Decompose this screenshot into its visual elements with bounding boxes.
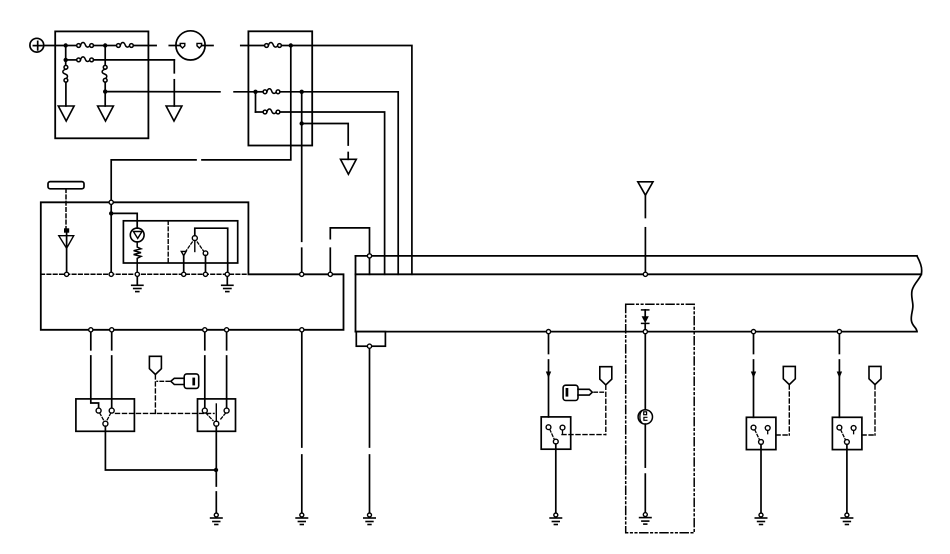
key cylinder shield 3	[783, 366, 795, 384]
switch arm	[194, 241, 196, 252]
switch arm dashes	[550, 430, 554, 440]
hood switch box	[541, 417, 571, 449]
switch 1 common	[103, 421, 108, 426]
wire B3 down	[301, 92, 303, 242]
relay switch common	[192, 236, 197, 241]
right unit bottom edge	[356, 331, 917, 333]
wire pin to door switch 1 terminal b	[111, 330, 113, 350]
battery positive terminal B+	[30, 38, 44, 52]
key icon (pointing right)	[563, 385, 592, 400]
glovebox switch feed wire	[838, 332, 840, 354]
wire after break to bus pin	[644, 228, 646, 274]
wire after break	[548, 360, 550, 417]
wire after break to ground	[369, 455, 371, 513]
fuse box 2 (dash fuse box)	[248, 31, 312, 145]
wire common up and over to pin	[195, 228, 228, 274]
wire common to ground	[846, 444, 848, 512]
wire	[282, 45, 291, 47]
wire battery to fuse box	[44, 45, 66, 47]
left unit dashed terminal line	[41, 273, 249, 275]
ground G6	[222, 285, 233, 291]
wire row3 to right bend	[280, 112, 385, 274]
key cylinder shield symbol	[149, 356, 161, 374]
wire A2 down	[104, 46, 106, 66]
wire B1 down and left to pin	[202, 46, 291, 160]
wire row1 to ignition switch	[133, 45, 156, 47]
diode D1	[642, 310, 649, 332]
ground G2 triangle	[98, 106, 114, 121]
relay contact terminal b	[203, 251, 208, 256]
wire pin to door switch 2 terminal a	[204, 330, 206, 350]
dashed link shield to switch	[154, 375, 156, 414]
wire row2 to right bend	[302, 92, 399, 274]
ground G12	[755, 513, 766, 525]
ground G5	[132, 285, 143, 291]
ground G4 triangle	[341, 159, 357, 174]
wire	[183, 256, 185, 275]
wire after break	[753, 360, 755, 417]
node B2 junction	[253, 90, 257, 94]
wire after break	[111, 356, 113, 411]
node B1 junction	[289, 43, 293, 47]
ground G3 triangle	[166, 106, 182, 121]
wire subbox pin down	[369, 346, 371, 447]
fuse F2	[117, 42, 134, 47]
antenna triangle symbol	[638, 182, 653, 195]
wire after connector break into fuse box 2	[241, 45, 265, 47]
wire after break with jog	[91, 356, 99, 411]
dashed shield to linkage	[788, 385, 790, 435]
wire after break	[226, 356, 228, 411]
wire after break to left unit pin	[111, 160, 196, 202]
dashed key to shield link	[594, 391, 605, 393]
switch terminal b	[851, 426, 856, 431]
fuse box 1 (under-hood fuse/relay box)	[55, 31, 148, 138]
switch arm dashes	[186, 242, 192, 251]
pin on right unit bus	[643, 272, 647, 276]
switch 2 terminal b	[224, 408, 229, 413]
connector arrow	[837, 372, 842, 379]
wire after break to ground	[215, 492, 217, 513]
security relay box	[123, 221, 237, 263]
connector arrow	[546, 372, 551, 379]
trunk switch feed wire	[753, 332, 755, 354]
wire node W330 up and over to right box pin	[329, 248, 331, 274]
wire row2	[66, 59, 77, 61]
switch 2 arm dashes	[206, 413, 213, 420]
wire	[94, 45, 106, 47]
linkage dashed	[862, 434, 875, 436]
buzzer	[638, 410, 652, 424]
glovebox switch box	[832, 417, 862, 449]
wire after connector break	[169, 45, 180, 47]
switch terminal a	[751, 425, 756, 430]
key linkage dashed line	[116, 412, 215, 414]
wire B2 down to row3	[255, 92, 257, 112]
switch terminal b	[765, 426, 770, 431]
right unit left edge	[355, 256, 357, 332]
key icon (pointing left)	[171, 374, 199, 389]
switch terminal b	[560, 425, 565, 430]
connector arrow	[751, 372, 756, 379]
switch 2 arm	[215, 404, 217, 421]
dashed key to shield link	[157, 380, 170, 382]
wire branch to relay lamp	[111, 213, 137, 228]
wire row3 long to fuse box 2	[105, 91, 220, 93]
wire from ignition switch right	[202, 45, 213, 47]
ground G11	[550, 513, 561, 525]
wire	[205, 256, 207, 275]
node A3 junction row2	[63, 58, 67, 62]
switch 1 arm dashes	[100, 413, 104, 421]
pins on right unit bottom edge	[546, 330, 550, 334]
linkage dashed	[776, 434, 789, 436]
switch terminal a	[546, 425, 551, 430]
node A1 junction	[63, 43, 67, 47]
wire after break	[330, 228, 369, 256]
hood switch feed wire	[548, 332, 550, 354]
relay contact terminal a	[181, 251, 186, 255]
ignition switch connector (circle)	[176, 31, 205, 60]
ground G1 triangle	[58, 106, 74, 121]
wire row1 segment	[66, 45, 77, 47]
node B4 junction	[300, 121, 304, 125]
fuse F1	[77, 42, 94, 47]
relay coil	[134, 242, 141, 274]
switch common	[553, 439, 558, 444]
wire after break to ground G4	[347, 153, 349, 160]
wire after break	[204, 356, 206, 411]
pin: left unit top	[109, 200, 113, 204]
wire to ground G1	[65, 82, 67, 106]
wire down toward ground G3	[173, 60, 175, 73]
right unit terminal bus line	[356, 273, 922, 275]
wire to node A4	[104, 82, 106, 106]
switch common	[845, 440, 850, 445]
wire	[105, 45, 116, 47]
wire B3 lower after break to pin	[301, 248, 303, 274]
wire switch 1 common down and right	[105, 426, 216, 470]
node B3 junction	[300, 90, 304, 94]
switch terminal a	[837, 425, 842, 430]
wire switch 2 common down	[215, 426, 217, 486]
wire row4 to bend down	[302, 124, 349, 146]
indicator lamp L1	[130, 228, 144, 242]
ground G10	[364, 513, 375, 525]
dashed lead down	[65, 189, 67, 229]
switch arm dashes	[841, 430, 846, 440]
node A2 junction	[103, 43, 107, 47]
fuse F6	[263, 89, 280, 94]
wire common to ground	[760, 444, 762, 512]
wire coil pin to ground	[136, 274, 138, 284]
wire pin P4 to bus	[369, 256, 371, 274]
wire feed from pin down through relay branch	[110, 202, 112, 274]
right control unit (integrated control unit) top edge	[356, 255, 917, 257]
node C1 junction	[109, 211, 113, 215]
wire pin to door switch 2 terminal b	[226, 330, 228, 350]
fuse F5	[265, 42, 282, 47]
switch 2 terminal a	[202, 408, 207, 413]
wire pin to door switch 1 jog	[90, 330, 92, 350]
wire diode pin down to buzzer	[644, 332, 646, 410]
switch 1 terminal a	[96, 408, 101, 413]
linkage dashed	[562, 434, 606, 436]
wire A1 down	[65, 46, 67, 66]
fuse F4 (vertical)	[102, 65, 107, 82]
switch arm dashes	[755, 430, 760, 440]
dashed shield to linkage	[874, 385, 876, 435]
relay divider dashed	[167, 221, 169, 263]
circuit breaker (vertical)	[63, 65, 68, 82]
door switch 2 box	[198, 399, 236, 431]
wire row3 after connector break	[234, 91, 255, 93]
wire	[256, 111, 264, 113]
wire row2 to right	[94, 59, 175, 61]
node A4 junction	[103, 89, 107, 93]
wire common to ground	[555, 444, 557, 513]
photo sensor square	[64, 228, 69, 232]
fuse F7	[263, 109, 280, 114]
wire after break	[173, 80, 175, 106]
trunk switch box	[746, 417, 776, 449]
switch 2 common	[214, 421, 219, 426]
ground G8	[296, 513, 307, 525]
wire contact pin to ground	[226, 274, 228, 284]
wire buzzer to ground	[644, 424, 646, 467]
switch common	[759, 440, 764, 445]
right unit sub box	[356, 332, 385, 347]
pins on left unit bottom edge	[89, 328, 93, 332]
ground G13	[841, 513, 852, 525]
node D1 junction	[214, 468, 218, 472]
key cylinder shield 2	[600, 367, 612, 385]
pin on sub box	[367, 344, 371, 348]
dashed shield to linkage	[605, 385, 607, 434]
ground G9	[640, 513, 651, 525]
wire after break to ground	[301, 455, 303, 513]
sensor triangle	[59, 236, 74, 249]
wire antenna down	[644, 195, 646, 217]
interior lamp pill symbol	[48, 182, 84, 189]
wire pin x302 down	[301, 330, 303, 447]
door switch 1 box	[76, 399, 134, 431]
fuse F3	[77, 57, 94, 62]
wire after break	[838, 360, 840, 417]
pin on right unit top edge	[367, 254, 371, 258]
wire	[256, 91, 264, 93]
switch 1 terminal b	[109, 408, 114, 413]
wire	[280, 91, 302, 93]
left control unit box outline	[41, 202, 344, 329]
right unit torn right edge	[911, 256, 921, 332]
chain line box (security unit)	[626, 304, 695, 533]
wire sensor to pin	[66, 233, 68, 275]
key cylinder shield 4	[869, 366, 881, 384]
pins on left unit dashed terminal line	[65, 272, 69, 276]
wire row1 to right bend	[291, 46, 412, 275]
ground G7	[211, 513, 222, 525]
